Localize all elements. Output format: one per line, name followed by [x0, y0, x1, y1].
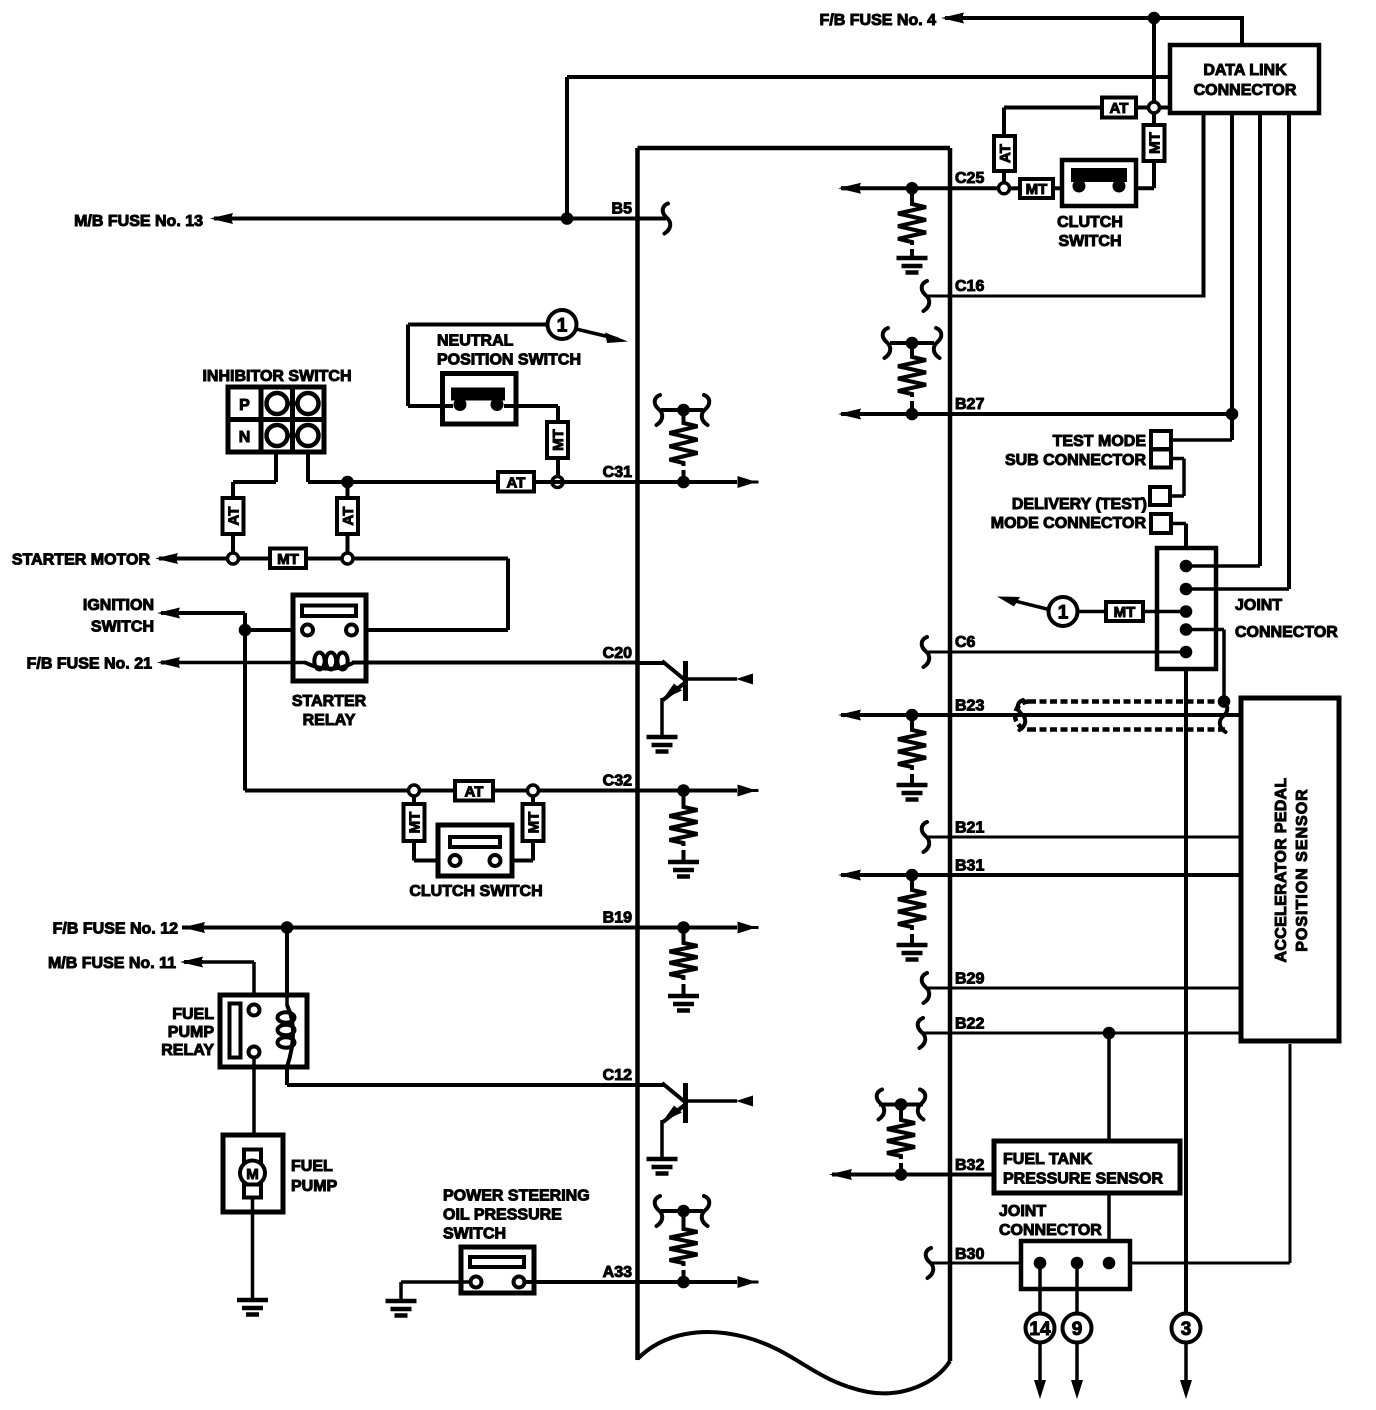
- bottom joint pin 1: [1034, 1257, 1047, 1270]
- break squiggle right of A33 stub: [702, 1196, 710, 1226]
- wire F/B FUSE No.21 to relay coil: [178, 661, 296, 665]
- wire MT drop below circle (x=1154): [1152, 113, 1156, 188]
- MT tag box (NPS leg): [547, 422, 568, 458]
- svg-text:INHIBITOR SWITCH: INHIBITOR SWITCH: [202, 368, 351, 385]
- AT tag box (left leg, rotated): [994, 136, 1015, 171]
- wire bottom joint pin1 to circle 14: [1038, 1263, 1042, 1313]
- fuel pump motor circle: [240, 1161, 265, 1186]
- ground under Q1: [647, 735, 678, 740]
- svg-text:MT: MT: [406, 812, 423, 834]
- neutral position switch box: [443, 374, 517, 425]
- junction C32 interior: [677, 784, 690, 797]
- wire pin C16 row (y=296): [928, 295, 1204, 298]
- arrow to F/B FUSE No. 12: [182, 922, 205, 933]
- starter relay armature bar: [302, 606, 356, 617]
- wire pin B19 row (y=927.5): [182, 926, 638, 930]
- wire DLC pin1 drop (x=1203.5): [1202, 113, 1206, 298]
- fuel pump relay contact top: [249, 1005, 260, 1016]
- svg-text:STARTER: STARTER: [292, 693, 367, 710]
- svg-text:SWITCH: SWITCH: [443, 1225, 506, 1242]
- svg-text:B21: B21: [955, 819, 984, 836]
- MT tag box (starter motor): [270, 549, 306, 569]
- svg-text:MT: MT: [277, 551, 299, 568]
- reference circle 3: [1172, 1314, 1201, 1343]
- wire B22 down to fuel tank pressure sensor: [1107, 1033, 1111, 1141]
- svg-text:PUMP: PUMP: [291, 1178, 338, 1195]
- svg-text:C25: C25: [955, 170, 984, 187]
- break squiggle on C6 wire: [922, 637, 930, 667]
- wire junction down to relay coil: [285, 928, 289, 997]
- clutch switch bar foot left: [1073, 180, 1086, 193]
- inhibitor P contact link: [277, 402, 308, 406]
- clutch switch contact bar: [1071, 168, 1127, 182]
- fuel tank pressure sensor box: [994, 1141, 1180, 1193]
- wire B30 right riser to APS (x=1290): [1289, 1044, 1292, 1263]
- ground under B23 resistor: [897, 783, 928, 788]
- svg-text:B22: B22: [955, 1015, 984, 1032]
- svg-text:DELIVERY (TEST): DELIVERY (TEST): [1012, 496, 1147, 513]
- junction on C25 wire: [906, 182, 919, 195]
- starter relay box: [293, 595, 366, 681]
- junction on B22 wire: [1103, 1027, 1116, 1040]
- svg-text:AT: AT: [225, 507, 242, 526]
- wire DLC AT/MT drop (x=1154): [1152, 18, 1156, 102]
- connector circle C32 left: [409, 785, 420, 796]
- wire C32 left MT leg: [412, 796, 416, 804]
- transistor Q2 collector: [687, 1099, 737, 1103]
- svg-text:PUMP: PUMP: [168, 1024, 215, 1041]
- joint pin 2: [1180, 583, 1193, 596]
- resistor under C25 junction: [910, 188, 914, 201]
- svg-text:CLUTCH: CLUTCH: [1057, 214, 1123, 231]
- arrow to M/B FUSE No. 13: [210, 213, 233, 224]
- wire pin B23 row (y=715): [841, 713, 1240, 717]
- connector circle on C31: [552, 477, 563, 488]
- ps contact left: [471, 1277, 482, 1288]
- wire relay contact to fuel pump: [252, 1058, 256, 1151]
- wire C32 interior (to arrow): [638, 789, 738, 793]
- svg-text:3: 3: [1181, 1319, 1192, 1340]
- junction on B19 wire: [281, 921, 294, 934]
- svg-text:9: 9: [1072, 1319, 1083, 1340]
- wire Q1 emitter to ground: [660, 698, 664, 737]
- svg-text:POWER STEERING: POWER STEERING: [443, 1187, 590, 1204]
- wire pin B27 row (y=414): [841, 412, 1232, 416]
- MT tag box (clutch feed): [1020, 179, 1053, 198]
- svg-text:P: P: [239, 397, 250, 414]
- svg-text:C6: C6: [955, 634, 976, 651]
- svg-text:OIL PRESSURE: OIL PRESSURE: [443, 1206, 562, 1223]
- resistor above B32 junction: [899, 1105, 903, 1118]
- svg-text:B29: B29: [955, 970, 984, 987]
- wire B19 interior (to arrow): [638, 926, 738, 930]
- svg-text:B31: B31: [955, 857, 984, 874]
- AT tag box (inhibitor right): [337, 498, 358, 534]
- break squiggle on B23 at shield end: [1220, 702, 1228, 732]
- wire FTPS down to joint connector: [1107, 1193, 1111, 1263]
- wire joint pin1 to DLC pin3: [1186, 564, 1260, 568]
- test mode sub connector cavity 1: [1151, 431, 1171, 449]
- wire junction to relay contact: [245, 628, 295, 632]
- wire AT branch down leg (x=1004): [1002, 108, 1006, 184]
- ground under B19 resistor: [668, 994, 699, 999]
- wire joint connector drop (x=1186): [1184, 524, 1188, 1315]
- transistor Q1 bar: [683, 661, 688, 701]
- svg-text:RELAY: RELAY: [161, 1042, 214, 1059]
- junction on C31 wire: [341, 476, 354, 489]
- break squiggle on C16 wire: [922, 281, 930, 311]
- break squiggle on B21 wire: [922, 822, 930, 852]
- junction ignition/relay/C32: [239, 624, 252, 637]
- svg-text:JOINT: JOINT: [999, 1203, 1046, 1220]
- svg-text:POSITION SWITCH: POSITION SWITCH: [437, 351, 581, 368]
- svg-text:CONNECTOR: CONNECTOR: [1194, 82, 1297, 99]
- svg-text:C31: C31: [603, 464, 632, 481]
- delivery mode connector cavity 2: [1151, 514, 1171, 533]
- inhibitor N contact link: [277, 434, 308, 438]
- joint pin 1: [1180, 560, 1193, 573]
- fuel pump relay box: [220, 995, 307, 1067]
- ground under fuel pump: [237, 1298, 268, 1303]
- clutch contact left: [450, 855, 461, 866]
- arrow out of B27: [838, 409, 861, 420]
- svg-text:AT: AT: [340, 507, 357, 526]
- bottom joint pin 3: [1103, 1257, 1116, 1270]
- ECM box top edge: [638, 146, 951, 151]
- wire C31 interior (to arrow): [638, 480, 738, 484]
- AT tag box (C31): [498, 472, 534, 492]
- inhibitor P contact circle 2: [298, 393, 319, 414]
- svg-text:STARTER MOTOR: STARTER MOTOR: [12, 551, 151, 568]
- wire MT leg to C31 circle: [556, 458, 560, 476]
- wire starter motor down to relay: [506, 559, 510, 631]
- svg-text:N: N: [239, 429, 251, 446]
- arrowhead at Q2 collector: [736, 1096, 753, 1107]
- junction on B32 wire: [895, 1168, 908, 1181]
- junction A33 stub: [677, 1205, 690, 1218]
- wire junction down to AT (inhibitor right): [346, 482, 350, 498]
- wire pin C25 row (y=188.3): [841, 186, 999, 190]
- arrow out of circle 1 (right): [1007, 599, 1049, 610]
- break squiggle right of B32 stub: [918, 1090, 926, 1120]
- svg-text:RELAY: RELAY: [303, 712, 356, 729]
- transistor Q2 emitter: [663, 1106, 684, 1123]
- arrow to F/B FUSE No. 4: [941, 13, 964, 24]
- AT tag box (top): [1102, 98, 1136, 118]
- wire inhibitor right leg: [306, 452, 310, 482]
- arrow B19 interior: [738, 922, 757, 934]
- arrow to STARTER MOTOR: [155, 553, 178, 564]
- arrowhead at Q1 collector: [736, 674, 753, 685]
- svg-text:POSITION SENSOR: POSITION SENSOR: [1294, 788, 1311, 951]
- svg-text:B30: B30: [955, 1246, 984, 1263]
- MT tag box (C32 right): [523, 804, 544, 841]
- wire junction B5 up to DLC feed: [565, 77, 569, 219]
- junction C31 interior: [677, 476, 690, 489]
- wire A33 interior (to arrow): [638, 1280, 738, 1284]
- resistor under B23 junction: [910, 715, 914, 727]
- ground under C32 resistor: [668, 860, 699, 865]
- joint pin 4: [1180, 623, 1193, 636]
- svg-text:FUEL: FUEL: [172, 1006, 214, 1023]
- wire ignition switch feed: [178, 611, 245, 615]
- break squiggle on B23 at shield start: [1018, 700, 1026, 730]
- wire DLC pin2 drop (x=1232): [1230, 113, 1234, 440]
- wire joint pin2 to DLC pin4: [1186, 587, 1289, 591]
- svg-text:B27: B27: [955, 396, 984, 413]
- break squiggle right of C31 stub: [702, 395, 710, 425]
- wire pin B32 row (y=1174.5): [832, 1173, 994, 1177]
- wire fuse4 corner down to DLC top: [1240, 16, 1244, 45]
- break squiggle on B5 wire: [663, 204, 671, 234]
- junction on B23 wire: [906, 709, 919, 722]
- junction B27/DLC pin2: [1226, 408, 1239, 421]
- ground at ps switch: [386, 1299, 417, 1304]
- svg-text:1: 1: [557, 315, 568, 336]
- svg-text:14: 14: [1029, 1319, 1051, 1340]
- arrow below circle 3: [1184, 1342, 1188, 1380]
- pull-up stub line above B32: [879, 1103, 923, 1107]
- inhibitor N contact circle 1: [267, 425, 288, 446]
- clutch switch (AT/MT) box: [1062, 160, 1136, 206]
- wire MT to clutch contact right: [531, 841, 535, 861]
- wire pin C31 row (y=482): [308, 480, 638, 484]
- svg-text:MT: MT: [1146, 132, 1163, 154]
- connector circle on C25 (AT/MT split): [999, 183, 1010, 194]
- ground under B31 resistor: [897, 943, 928, 948]
- svg-text:DATA LINK: DATA LINK: [1203, 62, 1287, 79]
- shield dashed top (B23): [1029, 699, 1225, 704]
- pull-up stub above C31: [661, 408, 703, 412]
- arrow below circle 14: [1038, 1342, 1042, 1380]
- svg-text:C20: C20: [603, 645, 632, 662]
- wire cavity4 to joint connector drop: [1171, 522, 1186, 526]
- joint connector (right) box: [1157, 548, 1216, 669]
- wire M/B FUSE No.13 to ECM pin B5 (y=218.5): [228, 217, 666, 221]
- reference circle 1 (right): [1049, 597, 1078, 626]
- junction on B31 wire: [906, 869, 919, 882]
- transistor Q1 collector: [687, 677, 737, 681]
- data link connector box: [1170, 45, 1319, 113]
- svg-text:B5: B5: [612, 200, 633, 217]
- svg-text:SWITCH: SWITCH: [1058, 233, 1121, 250]
- resistor C32 interior: [682, 791, 686, 805]
- svg-text:MT: MT: [525, 812, 542, 834]
- wire pin B31 row (y=875): [841, 873, 1240, 877]
- ECM box right edge (right bus): [948, 148, 953, 1361]
- wire pin A33 row (y=1282): [525, 1280, 638, 1284]
- wire AT to starter-motor circle (left): [231, 534, 235, 553]
- transistor Q2 bar: [683, 1083, 688, 1123]
- wire to DATA LINK CONNECTOR left side (y=77): [567, 75, 1170, 79]
- arrow out of B31: [838, 870, 861, 881]
- delivery mode connector cavity 1: [1150, 487, 1170, 505]
- junction on B27 stub: [906, 337, 919, 350]
- reference circle 1 (top): [548, 310, 577, 339]
- bottom joint pin 2: [1071, 1257, 1084, 1270]
- break squiggle left of B27 stub: [883, 328, 891, 358]
- arrow C31 interior: [738, 476, 757, 488]
- wire pin C32 row (y=790.5): [245, 789, 409, 793]
- svg-text:AT: AT: [507, 474, 526, 491]
- wire DLC pin4 drop (x=1289): [1287, 113, 1291, 589]
- svg-text:MT: MT: [1114, 604, 1136, 621]
- svg-text:M/B FUSE No. 13: M/B FUSE No. 13: [74, 213, 203, 230]
- wire M/B FUSE No.11 to relay contact: [201, 960, 254, 964]
- resistor under B31 junction: [910, 875, 914, 887]
- wire AT to starter-motor circle (right): [346, 534, 350, 553]
- NPS bar foot left: [454, 398, 467, 411]
- svg-text:AT: AT: [465, 783, 484, 800]
- wire pin C6 row (y=652): [928, 651, 1186, 654]
- svg-text:F/B FUSE No. 4: F/B FUSE No. 4: [820, 12, 937, 29]
- joint pin 5: [1180, 646, 1193, 659]
- resistor above B27 junction: [910, 343, 914, 354]
- starter relay contact left: [302, 625, 313, 636]
- wire MT to clutch contact left: [412, 841, 416, 861]
- arrow to F/B FUSE No. 21: [157, 657, 180, 668]
- MT tag box (joint pin3): [1106, 602, 1143, 621]
- wire relay coil to pin C20: [352, 661, 638, 665]
- wire NPS top loop: [408, 323, 548, 327]
- wire pin B30 row (y=1263): [932, 1262, 1290, 1265]
- wire MT tag to circle 1: [1078, 610, 1106, 614]
- AT tag box (inhibitor left): [223, 498, 244, 534]
- svg-text:AT: AT: [997, 144, 1014, 163]
- joint connector (bottom) box: [1021, 1241, 1130, 1289]
- arrow A33 interior: [738, 1276, 757, 1288]
- connector circle starter-motor left: [228, 553, 239, 564]
- reference circle 9: [1063, 1314, 1092, 1343]
- reference circle 14: [1026, 1314, 1055, 1343]
- fuel pump relay coil: [285, 996, 289, 1006]
- svg-text:SWITCH: SWITCH: [91, 618, 154, 635]
- svg-text:FUEL TANK: FUEL TANK: [1003, 1151, 1093, 1168]
- clutch contact right: [490, 855, 501, 866]
- inhibitor N contact circle 2: [298, 425, 319, 446]
- power steering switch slot: [470, 1257, 524, 1267]
- pull-up stub line above B27: [890, 341, 934, 345]
- arrow out of circle 1 (top): [576, 329, 618, 339]
- wire joint pin4 to shield drain: [1186, 628, 1224, 632]
- starter relay contact right: [346, 625, 357, 636]
- ps contact right: [514, 1277, 525, 1288]
- svg-text:AT: AT: [1110, 100, 1129, 117]
- svg-text:CONNECTOR: CONNECTOR: [1235, 624, 1338, 641]
- shield dashed bottom (B23): [1029, 727, 1227, 732]
- arrow C32 interior: [738, 785, 757, 797]
- test mode sub connector cavity 2: [1151, 450, 1171, 468]
- break squiggle left of B32 stub: [877, 1090, 885, 1120]
- fuel pump motor tab bottom: [244, 1185, 261, 1198]
- wire cavity1 to DLC pin2: [1171, 438, 1232, 442]
- transistor Q2 base wire (C12): [638, 1083, 665, 1087]
- svg-text:SUB CONNECTOR: SUB CONNECTOR: [1005, 452, 1146, 469]
- AT tag box (C32): [455, 781, 493, 801]
- fuel pump relay slot: [230, 1004, 241, 1058]
- break squiggle left of A33 stub: [655, 1196, 663, 1226]
- connector circle C32 right: [528, 785, 539, 796]
- inhibitor P contact circle 1: [267, 393, 288, 414]
- MT tag box (right leg, rotated): [1144, 125, 1165, 161]
- svg-text:ACCELERATOR PEDAL: ACCELERATOR PEDAL: [1273, 778, 1290, 963]
- arrow out of B32: [829, 1169, 852, 1180]
- break squiggle left of C31 stub: [655, 395, 663, 425]
- svg-text:CLUTCH SWITCH: CLUTCH SWITCH: [409, 883, 542, 900]
- break squiggle on B22 wire: [918, 1018, 926, 1048]
- wire Q2 emitter to ground: [660, 1120, 664, 1159]
- resistor A33 interior: [682, 1211, 686, 1226]
- junction C31 stub: [677, 404, 690, 417]
- svg-text:C16: C16: [955, 278, 984, 295]
- svg-text:M: M: [246, 1166, 259, 1183]
- transistor Q1 base wire (C20): [638, 661, 665, 665]
- break squiggle on B29 wire: [922, 973, 930, 1003]
- wire NPS left pin feed: [408, 404, 453, 408]
- pull-up stub above A33: [661, 1209, 703, 1213]
- svg-text:F/B FUSE No. 21: F/B FUSE No. 21: [27, 655, 152, 672]
- wire ignition drop to C32 (x=245): [243, 630, 247, 791]
- svg-text:MODE CONNECTOR: MODE CONNECTOR: [991, 515, 1147, 532]
- wire circle to DLC left edge: [1159, 106, 1170, 110]
- wire F/B FUSE No.4 (y=18): [958, 16, 1242, 20]
- fuel pump relay contact bottom: [249, 1047, 260, 1058]
- transistor Q1 emitter: [663, 684, 684, 701]
- svg-text:B23: B23: [955, 697, 984, 714]
- ground under Q2: [647, 1157, 678, 1162]
- svg-text:B32: B32: [955, 1157, 984, 1174]
- svg-text:CONNECTOR: CONNECTOR: [999, 1222, 1102, 1239]
- arrow out of B23: [838, 710, 861, 721]
- svg-text:F/B FUSE No. 12: F/B FUSE No. 12: [53, 920, 178, 937]
- arrow below circle 9: [1075, 1342, 1079, 1380]
- wire MT leg to clutch switch (y=188.3): [1136, 186, 1154, 190]
- svg-text:B19: B19: [603, 909, 632, 926]
- resistor C31 interior: [682, 410, 686, 420]
- svg-text:MT: MT: [550, 429, 567, 451]
- inhibitor box divider v1: [259, 387, 264, 452]
- junction on B5 wire: [561, 212, 574, 225]
- NPS contact bar: [451, 388, 505, 401]
- junction on B32 stub: [895, 1098, 908, 1111]
- svg-text:M/B FUSE No. 11: M/B FUSE No. 11: [48, 955, 176, 972]
- svg-text:PRESSURE SENSOR: PRESSURE SENSOR: [1003, 1170, 1163, 1187]
- shield dashed left cap (B23): [1015, 702, 1029, 730]
- svg-text:FUEL: FUEL: [291, 1158, 333, 1175]
- wire relay coil to pin C12: [285, 1067, 289, 1085]
- wire MT tag to clutch switch: [1053, 186, 1062, 190]
- wire ps switch to ground: [401, 1280, 470, 1284]
- NPS bar foot right: [491, 398, 504, 411]
- svg-text:1: 1: [1058, 602, 1069, 623]
- wire fuel pump to ground: [251, 1197, 255, 1300]
- clutch switch bar foot right: [1113, 180, 1126, 193]
- fuel pump motor tab top: [244, 1150, 261, 1163]
- svg-text:JOINT: JOINT: [1235, 597, 1282, 614]
- inhibitor box divider v2: [290, 387, 295, 452]
- wire inhibitor left leg: [274, 452, 278, 482]
- starter relay coil: [296, 661, 306, 665]
- ECM box left edge (left bus): [635, 148, 640, 1360]
- wire DLC pin3 drop (x=1260): [1258, 113, 1262, 566]
- resistor B19 interior: [682, 928, 686, 941]
- inhibitor box divider h: [228, 417, 324, 422]
- shield drain junction (B23): [1218, 695, 1231, 708]
- wire pin B29 row (y=988): [928, 987, 1240, 990]
- wire cavity2 jog: [1171, 457, 1184, 461]
- svg-text:NEUTRAL: NEUTRAL: [437, 332, 514, 349]
- wire starter motor row: [176, 557, 228, 561]
